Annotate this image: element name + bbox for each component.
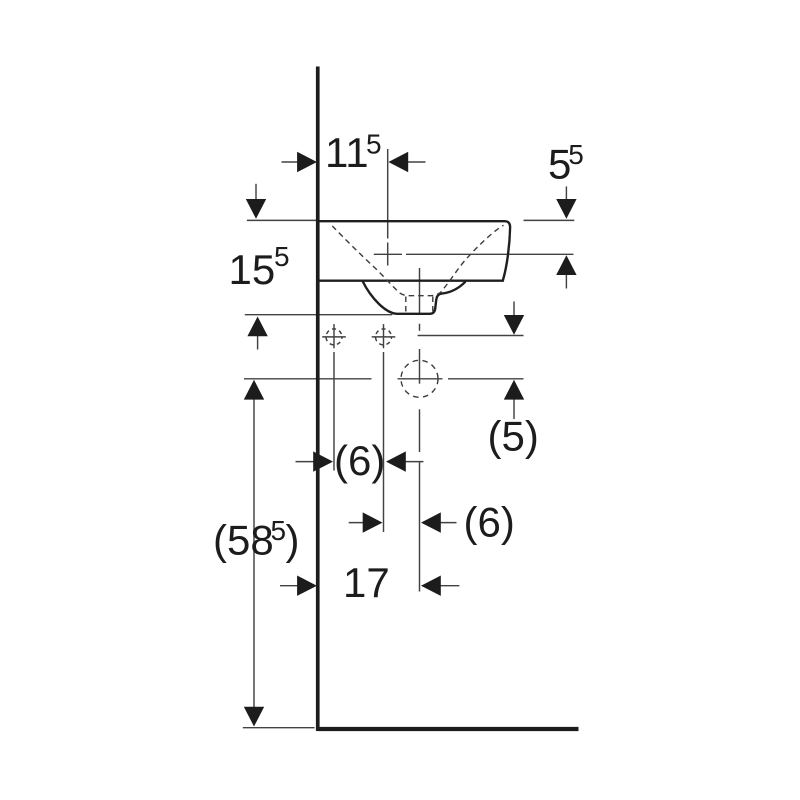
svg-text:5: 5 [271, 515, 287, 546]
svg-text:11: 11 [325, 129, 369, 176]
svg-text:(58: (58 [213, 517, 274, 564]
svg-text:15: 15 [229, 246, 276, 293]
svg-text:(5): (5) [488, 413, 539, 460]
svg-text:5: 5 [568, 139, 584, 170]
svg-text:5: 5 [366, 129, 382, 160]
svg-text:(6): (6) [334, 437, 385, 484]
svg-text:): ) [286, 517, 300, 564]
svg-text:(6): (6) [464, 499, 515, 546]
svg-text:5: 5 [274, 241, 290, 272]
svg-text:17: 17 [343, 559, 390, 606]
